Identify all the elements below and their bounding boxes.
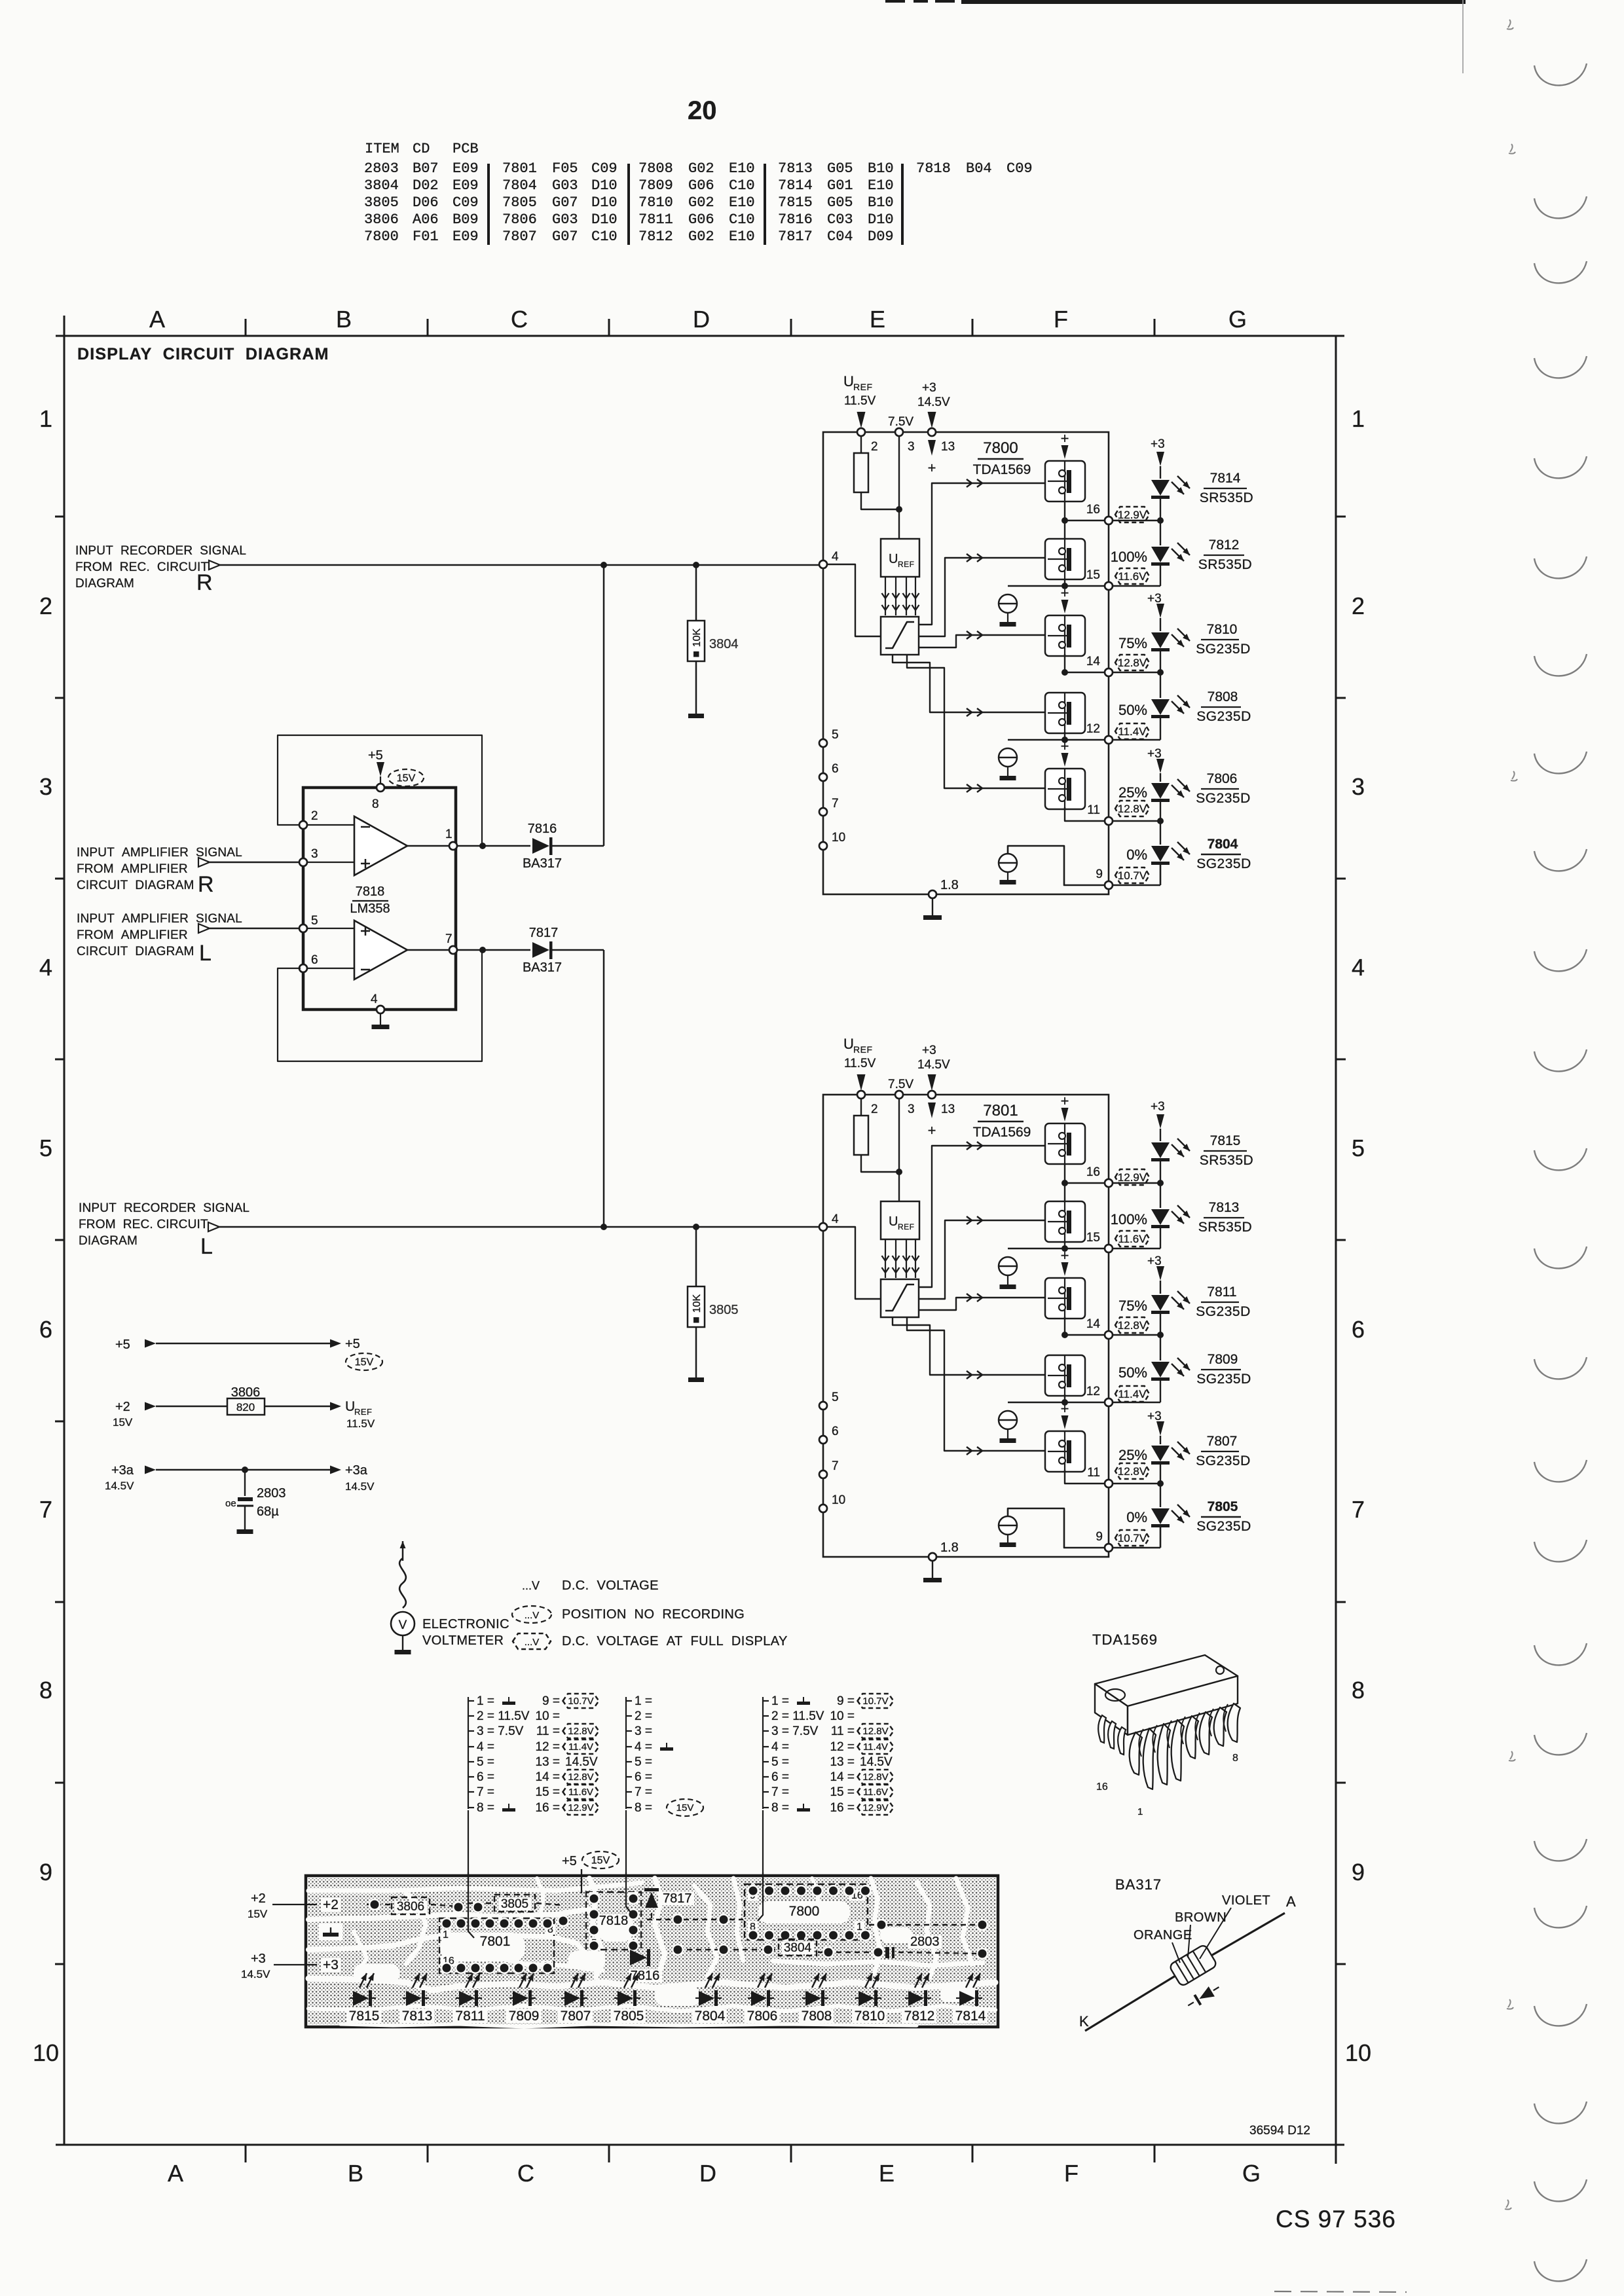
svg-text:SR535D: SR535D [1200, 490, 1253, 505]
LED 7810 SG235D (75%) [1151, 632, 1170, 648]
svg-text:4 =: 4 = [771, 1740, 789, 1754]
node junction R / resistor 3804 branch [693, 562, 699, 568]
pin 14 terminal [1105, 1331, 1113, 1339]
svg-text:PCB: PCB [452, 141, 479, 157]
svg-text:75%: 75% [1118, 1298, 1147, 1314]
svg-text:DIAGRAM: DIAGRAM [75, 577, 134, 591]
svg-text:SG235D: SG235D [1196, 1304, 1251, 1319]
svg-text:12 =: 12 = [535, 1740, 560, 1754]
pin 7 terminal [819, 1470, 827, 1478]
svg-text:TDA1569: TDA1569 [973, 1125, 1031, 1140]
driver cell 3 of 7801 [1045, 1278, 1085, 1319]
ground op-amp pin 4 [372, 1025, 390, 1029]
svg-text:7818: 7818 [916, 160, 951, 177]
svg-text:6: 6 [39, 1316, 52, 1343]
svg-text:12 =: 12 = [830, 1740, 855, 1754]
svg-text:2 =: 2 = [635, 1709, 652, 1723]
PCB LED 7806 [751, 1991, 767, 2006]
PCB IC 7818 pads [588, 1893, 600, 1904]
svg-text:11.6V: 11.6V [1118, 1233, 1147, 1245]
LED 7811 SG235D (75%) [1151, 1295, 1170, 1311]
svg-text:D06: D06 [413, 194, 439, 211]
svg-text:+3: +3 [251, 1952, 266, 1966]
svg-text:1: 1 [443, 1929, 449, 1941]
svg-text:SG235D: SG235D [1196, 1519, 1251, 1534]
wire 3805 top [695, 1227, 697, 1286]
PCB +3 pad label [321, 1958, 341, 1972]
svg-text:11.6V: 11.6V [1118, 570, 1147, 583]
pin 4 terminal [377, 1006, 384, 1013]
svg-text:8: 8 [1232, 1753, 1238, 1764]
input R amp terminal arrow [198, 858, 210, 867]
svg-text:U: U [889, 552, 898, 566]
svg-text:+3: +3 [922, 1044, 936, 1057]
svg-text:6: 6 [832, 1425, 839, 1438]
svg-text:FROM AMPLIFIER: FROM AMPLIFIER [77, 862, 188, 876]
svg-text:7806: 7806 [1207, 771, 1238, 786]
svg-text:7817: 7817 [529, 926, 559, 940]
svg-text:6: 6 [1352, 1316, 1365, 1343]
svg-text:+: + [1061, 1093, 1069, 1109]
pin 10 terminal [819, 1504, 827, 1512]
svg-text:B: B [336, 306, 352, 333]
legend dc voltage at full display [513, 1633, 551, 1649]
wire pin6 to op2 inverting input [307, 968, 354, 969]
driver cell 2 of 7801 [1045, 1201, 1085, 1242]
internal resistor [854, 1116, 868, 1155]
svg-text:REF: REF [853, 382, 873, 392]
svg-text:D.C. VOLTAGE: D.C. VOLTAGE [562, 1578, 659, 1593]
PCB LED 7805 [618, 1991, 633, 2006]
wire pin 4 to limiter [827, 1227, 881, 1299]
driver cell 1 of 7800 [1045, 461, 1085, 501]
svg-text:7813: 7813 [402, 2009, 433, 2024]
wire pin5 to op2 non-inverting input [307, 928, 354, 929]
svg-text:D: D [699, 2160, 716, 2187]
svg-text:13: 13 [941, 1102, 955, 1116]
wire pin 2 to internal resistor [860, 436, 862, 453]
svg-text:BA317: BA317 [1115, 1876, 1162, 1893]
svg-text:4: 4 [39, 954, 52, 981]
svg-text:CS 97 536: CS 97 536 [1276, 2206, 1396, 2232]
svg-text:D10: D10 [868, 211, 894, 228]
svg-text:15V: 15V [355, 1357, 374, 1368]
pin 2 terminal [857, 1091, 865, 1099]
signal chevrons on cell inputs [967, 1142, 972, 1150]
svg-text:B: B [348, 2160, 363, 2187]
svg-text:10: 10 [33, 2039, 59, 2066]
PCB LED 7811 [459, 1991, 475, 2006]
svg-text:12.9V: 12.9V [1118, 509, 1147, 521]
pin 16 terminal [1105, 1179, 1113, 1187]
PCB dashed link 3805 row [458, 1903, 493, 1904]
pin 14 terminal [1105, 668, 1113, 676]
svg-text:L: L [200, 1234, 213, 1259]
svg-text:7814: 7814 [1210, 471, 1241, 486]
svg-text:+3: +3 [1151, 1100, 1165, 1114]
current source I2 [999, 748, 1017, 767]
svg-text:G05: G05 [827, 194, 853, 211]
svg-text:7812: 7812 [1209, 538, 1240, 553]
svg-text:G03: G03 [552, 211, 578, 228]
svg-text:7801: 7801 [502, 160, 537, 177]
svg-text:12.8V: 12.8V [862, 1726, 888, 1737]
svg-text:14.5V: 14.5V [241, 1968, 270, 1980]
limiter transfer box [881, 617, 919, 655]
svg-text:14: 14 [1086, 1317, 1101, 1331]
svg-text:14.5V: 14.5V [860, 1755, 893, 1769]
internal resistor [854, 453, 868, 492]
svg-text:9: 9 [1096, 867, 1103, 881]
+5 rail arrow and wire [145, 1339, 156, 1348]
svg-text:7811: 7811 [455, 2009, 485, 2024]
svg-text:12.8V: 12.8V [862, 1772, 888, 1783]
LED 7813 SR535D (100%) [1160, 1183, 1161, 1208]
svg-text:11.4V: 11.4V [863, 1741, 888, 1753]
frame left ticks [55, 516, 64, 518]
wire pin12 rail (current source to LED) [1008, 739, 1105, 740]
svg-text:12.9V: 12.9V [862, 1802, 888, 1813]
svg-text:11.5V: 11.5V [346, 1417, 375, 1430]
svg-text:16 =: 16 = [535, 1801, 560, 1815]
wire pin 3 down to UREF box [898, 1099, 900, 1201]
svg-text:7800: 7800 [983, 439, 1018, 457]
svg-text:7809: 7809 [1208, 1352, 1238, 1367]
svg-text:10: 10 [1345, 2039, 1371, 2066]
svg-text:11 =: 11 = [831, 1724, 855, 1738]
svg-text:B10: B10 [868, 160, 894, 177]
pin 2 terminal [857, 428, 865, 436]
svg-text:14.5V: 14.5V [917, 395, 950, 409]
PCB LED 7813 [406, 1991, 422, 2006]
input R terminal arrow [209, 560, 220, 570]
svg-text:3806: 3806 [364, 211, 399, 228]
svg-text:A: A [1286, 1893, 1296, 1910]
IC 7801 TDA1569 outline [823, 1095, 1109, 1557]
svg-text:11: 11 [1087, 1466, 1100, 1480]
PCB LED 7809 [513, 1991, 528, 2006]
svg-text:TDA1569: TDA1569 [973, 462, 1031, 477]
limiter output wires to driver cells [919, 1146, 1045, 1287]
svg-text:14.5V: 14.5V [917, 1058, 950, 1072]
svg-text:SG235D: SG235D [1196, 1372, 1251, 1387]
svg-text:7807: 7807 [561, 2009, 591, 2024]
svg-text:11.4V: 11.4V [1118, 1388, 1147, 1400]
svg-text:VOLTMETER: VOLTMETER [422, 1633, 504, 1648]
svg-text:TDA1569: TDA1569 [1092, 1631, 1158, 1648]
svg-text:0%: 0% [1126, 1509, 1147, 1525]
frame bottom ticks [245, 2145, 247, 2162]
PCB IC 7800 pads [747, 1885, 759, 1897]
svg-text:3 = 7.5V: 3 = 7.5V [771, 1724, 819, 1738]
svg-text:7804: 7804 [695, 2009, 726, 2024]
svg-text:...V: ...V [522, 1579, 540, 1592]
svg-text:INPUT RECORDER SIGNAL: INPUT RECORDER SIGNAL [75, 544, 246, 558]
svg-text:ORANGE: ORANGE [1134, 1928, 1192, 1942]
svg-text:7: 7 [832, 797, 839, 811]
wire 3806 to UREF [265, 1406, 330, 1408]
svg-text:10K: 10K [692, 628, 703, 647]
svg-text:+3: +3 [1147, 747, 1162, 761]
svg-text:+3: +3 [1147, 592, 1162, 606]
PCB ground symbol [319, 1923, 342, 1941]
node resistor / pin3 wire [896, 1169, 902, 1175]
svg-text:12.9V: 12.9V [568, 1802, 593, 1813]
legend position no recording [512, 1606, 551, 1623]
callout 15V at pin 8 [667, 1799, 703, 1816]
svg-text:F01: F01 [413, 228, 439, 245]
pin 13 terminal [928, 428, 936, 436]
PCB diode 7816 [630, 1950, 647, 1965]
border frame left line [64, 316, 65, 2145]
svg-text:2: 2 [311, 809, 318, 823]
svg-text:50%: 50% [1118, 702, 1147, 718]
svg-text:12.9V: 12.9V [1118, 1171, 1147, 1184]
op-amp U1a triangle [354, 816, 407, 875]
svg-text:6 =: 6 = [771, 1770, 789, 1784]
arrow below pin 13 [928, 440, 936, 456]
svg-text:3: 3 [39, 773, 52, 800]
wire op2 output to pin 7 [407, 949, 530, 951]
svg-text:11 =: 11 = [536, 1724, 560, 1738]
pin 6 terminal [819, 1436, 827, 1444]
svg-text:9: 9 [1352, 1859, 1365, 1886]
voltage callouts at pins [1115, 1169, 1149, 1185]
svg-text:12.8V: 12.8V [568, 1726, 593, 1737]
svg-text:C10: C10 [729, 211, 755, 228]
PCB dashed links mid row [647, 1919, 743, 1920]
svg-text:12.8V: 12.8V [1118, 657, 1147, 669]
svg-text:+2: +2 [323, 1897, 339, 1912]
svg-text:4 =: 4 = [477, 1740, 494, 1754]
svg-text:6 =: 6 = [477, 1770, 494, 1784]
svg-text:SG235D: SG235D [1196, 642, 1251, 657]
pin table bracket [625, 1697, 627, 1809]
svg-text:7813: 7813 [1209, 1200, 1240, 1215]
svg-text:F05: F05 [552, 160, 578, 177]
wire cell5 to pin 11 [1065, 807, 1105, 821]
node resistor / pin3 wire [896, 506, 902, 513]
svg-text:12.8V: 12.8V [1118, 1319, 1147, 1332]
svg-text:SR535D: SR535D [1200, 1153, 1253, 1168]
svg-text:E: E [879, 2160, 895, 2187]
pin 15 terminal [1105, 582, 1113, 590]
svg-text:REF: REF [354, 1407, 373, 1417]
TDA1569 package pins [1130, 1732, 1142, 1775]
svg-text:7800: 7800 [364, 228, 399, 245]
wire cell1-cell2 with node to pin 16 [1064, 1164, 1065, 1201]
PCB resistor 3805 outline [494, 1895, 535, 1912]
svg-text:7808: 7808 [638, 160, 673, 177]
svg-text:CIRCUIT DIAGRAM: CIRCUIT DIAGRAM [77, 945, 194, 958]
UREF supply arrow to pin 2 [857, 412, 866, 428]
LED 7809 SG235D (50%) [1160, 1335, 1161, 1360]
svg-text:D10: D10 [591, 177, 618, 194]
limiter output wires to driver cells [919, 483, 1045, 625]
svg-text:B09: B09 [452, 211, 479, 228]
svg-text:A: A [168, 2160, 183, 2187]
svg-text:3: 3 [908, 440, 915, 454]
svg-text:10 =: 10 = [535, 1709, 560, 1723]
svg-text:15V: 15V [591, 1855, 610, 1866]
svg-text:16: 16 [1086, 1165, 1100, 1179]
svg-text:68µ: 68µ [257, 1504, 279, 1519]
IC 7800 TDA1569 outline [823, 432, 1109, 894]
svg-text:+5: +5 [562, 1854, 577, 1868]
svg-text:15V: 15V [676, 1802, 694, 1813]
callout 15V at pin 8 [388, 769, 424, 786]
svg-text:11.4V: 11.4V [1118, 725, 1147, 738]
svg-text:7 =: 7 = [635, 1785, 652, 1799]
UREF reference box [881, 1201, 919, 1239]
PCB IC 7801 outline [439, 1918, 554, 1973]
UREF output arrows into limiter [885, 1239, 886, 1278]
svg-text:7809: 7809 [509, 2009, 540, 2024]
svg-text:2803: 2803 [257, 1486, 286, 1501]
resistor 3805 10K [688, 1286, 705, 1327]
svg-text:7806: 7806 [502, 211, 537, 228]
svg-text:FROM REC. CIRCUIT: FROM REC. CIRCUIT [75, 560, 208, 574]
svg-text:K: K [1079, 2013, 1089, 2030]
svg-text:R: R [196, 570, 213, 595]
svg-text:8 =: 8 = [771, 1801, 789, 1815]
svg-text:10.7V: 10.7V [862, 1696, 888, 1707]
svg-text:7807: 7807 [1207, 1434, 1238, 1449]
svg-text:E10: E10 [868, 177, 894, 194]
svg-text:14.5V: 14.5V [565, 1755, 598, 1769]
current source I3 and wire to pin 9 [999, 854, 1017, 872]
wire input amp R to pin 3 [210, 862, 299, 864]
svg-text:F: F [1054, 306, 1068, 333]
minus sign op-amp 1 [361, 826, 370, 828]
svg-text:C09: C09 [452, 194, 479, 211]
svg-text:INPUT AMPLIFIER SIGNAL: INPUT AMPLIFIER SIGNAL [77, 846, 242, 860]
svg-text:+3: +3 [1147, 1410, 1162, 1423]
svg-text:C: C [517, 2160, 534, 2187]
wire 3804 bottom [695, 661, 697, 714]
svg-text:1: 1 [1352, 405, 1365, 432]
svg-text:5: 5 [311, 914, 318, 928]
PCB LED 7812 [908, 1991, 924, 2006]
svg-text:7805: 7805 [502, 194, 537, 211]
svg-text:8: 8 [372, 797, 379, 811]
svg-text:7805: 7805 [1208, 1499, 1238, 1514]
svg-text:10: 10 [832, 831, 845, 845]
pin 5 terminal [819, 1402, 827, 1410]
svg-text:+3a: +3a [345, 1463, 368, 1478]
svg-text:CD: CD [413, 141, 430, 157]
svg-text:E09: E09 [452, 177, 479, 194]
svg-text:11.6V: 11.6V [863, 1787, 888, 1798]
PCB IC 7800 outline [745, 1884, 868, 1940]
svg-text:12: 12 [1086, 1385, 1100, 1398]
svg-text:SR535D: SR535D [1198, 557, 1252, 572]
svg-text:U: U [843, 373, 854, 390]
svg-text:13 =: 13 = [830, 1755, 855, 1769]
PCB LED 7810 [858, 1991, 874, 2006]
svg-text:15V: 15V [113, 1416, 133, 1429]
ground 3805 [688, 1377, 704, 1382]
svg-text:7812: 7812 [904, 2009, 935, 2024]
svg-text:CIRCUIT DIAGRAM: CIRCUIT DIAGRAM [77, 879, 194, 892]
wire resistor to pin3 node [861, 492, 899, 509]
BA317 polarity symbol [1185, 1982, 1222, 2011]
svg-text:+5: +5 [368, 748, 383, 763]
signal chevrons on cell inputs [967, 479, 972, 487]
svg-text:11.5V: 11.5V [844, 394, 876, 408]
svg-text:2803: 2803 [364, 160, 399, 177]
pin 5 terminal [299, 924, 307, 932]
wire cell3 to node pin 14 [1064, 654, 1065, 672]
wire input amp L to pin 5 [210, 928, 299, 930]
svg-text:ITEM: ITEM [365, 141, 399, 157]
wire diode 7817 output right [552, 949, 604, 951]
svg-text:9 =: 9 = [542, 1694, 560, 1708]
svg-text:G: G [1242, 2160, 1261, 2187]
wire op1 output to pin 1 [407, 845, 530, 847]
svg-text:7816: 7816 [528, 822, 557, 836]
svg-text:C03: C03 [827, 211, 853, 228]
svg-text:POSITION NO RECORDING: POSITION NO RECORDING [562, 1607, 745, 1622]
svg-text:50%: 50% [1118, 1364, 1147, 1381]
svg-text:4: 4 [1352, 954, 1365, 981]
svg-text:10 =: 10 = [830, 1709, 855, 1723]
wire cell5 to pin 11 [1065, 1470, 1105, 1484]
pin 13 terminal [928, 1091, 936, 1099]
svg-text:C: C [511, 306, 528, 333]
PCB LED 7814 [959, 1991, 975, 2006]
driver cell 3 of 7800 [1045, 615, 1085, 656]
svg-text:C09: C09 [591, 160, 618, 177]
svg-text:+: + [928, 1122, 936, 1139]
pin 4 terminal [819, 1223, 827, 1231]
svg-text:3805: 3805 [709, 1303, 739, 1317]
wire cell3 to node pin 14 [1064, 1317, 1065, 1335]
svg-text:7 =: 7 = [771, 1785, 789, 1799]
pin 9 terminal [1105, 881, 1113, 889]
svg-text:LM358: LM358 [350, 902, 390, 916]
pin 6 terminal [819, 773, 827, 781]
pin 11 terminal [1105, 817, 1113, 825]
svg-text:7806: 7806 [747, 2009, 778, 2024]
driver cell 4 of 7800 [1045, 693, 1085, 733]
svg-text:75%: 75% [1118, 635, 1147, 651]
wire cell1-cell2 with node to pin 16 [1064, 501, 1065, 539]
svg-text:REF: REF [898, 560, 915, 569]
+3 supply arrow to pin 13 [928, 1074, 936, 1091]
svg-text:C10: C10 [729, 177, 755, 194]
limiter transfer box [881, 1279, 919, 1317]
PCB +2 pad label [321, 1898, 341, 1912]
svg-text:B07: B07 [413, 160, 439, 177]
svg-text:7804: 7804 [502, 177, 537, 194]
node +3a / capacitor 2803 [242, 1467, 248, 1473]
pins 1+8 ground terminal on bottom edge [929, 890, 936, 898]
svg-text:D09: D09 [868, 228, 894, 245]
svg-text:3804: 3804 [364, 177, 399, 194]
svg-text:3: 3 [311, 847, 318, 861]
svg-text:7808: 7808 [802, 2009, 832, 2024]
current source I3 and wire to pin 9 [999, 1516, 1017, 1535]
svg-text:16: 16 [1086, 503, 1100, 517]
PCB LED 7815 [353, 1991, 369, 2006]
svg-text:10K: 10K [692, 1294, 703, 1313]
input L amp terminal arrow [198, 924, 210, 933]
current source I1 [999, 1257, 1017, 1275]
svg-text:100%: 100% [1111, 549, 1147, 565]
svg-text:BA317: BA317 [523, 960, 562, 975]
svg-text:1.8: 1.8 [940, 1540, 959, 1555]
